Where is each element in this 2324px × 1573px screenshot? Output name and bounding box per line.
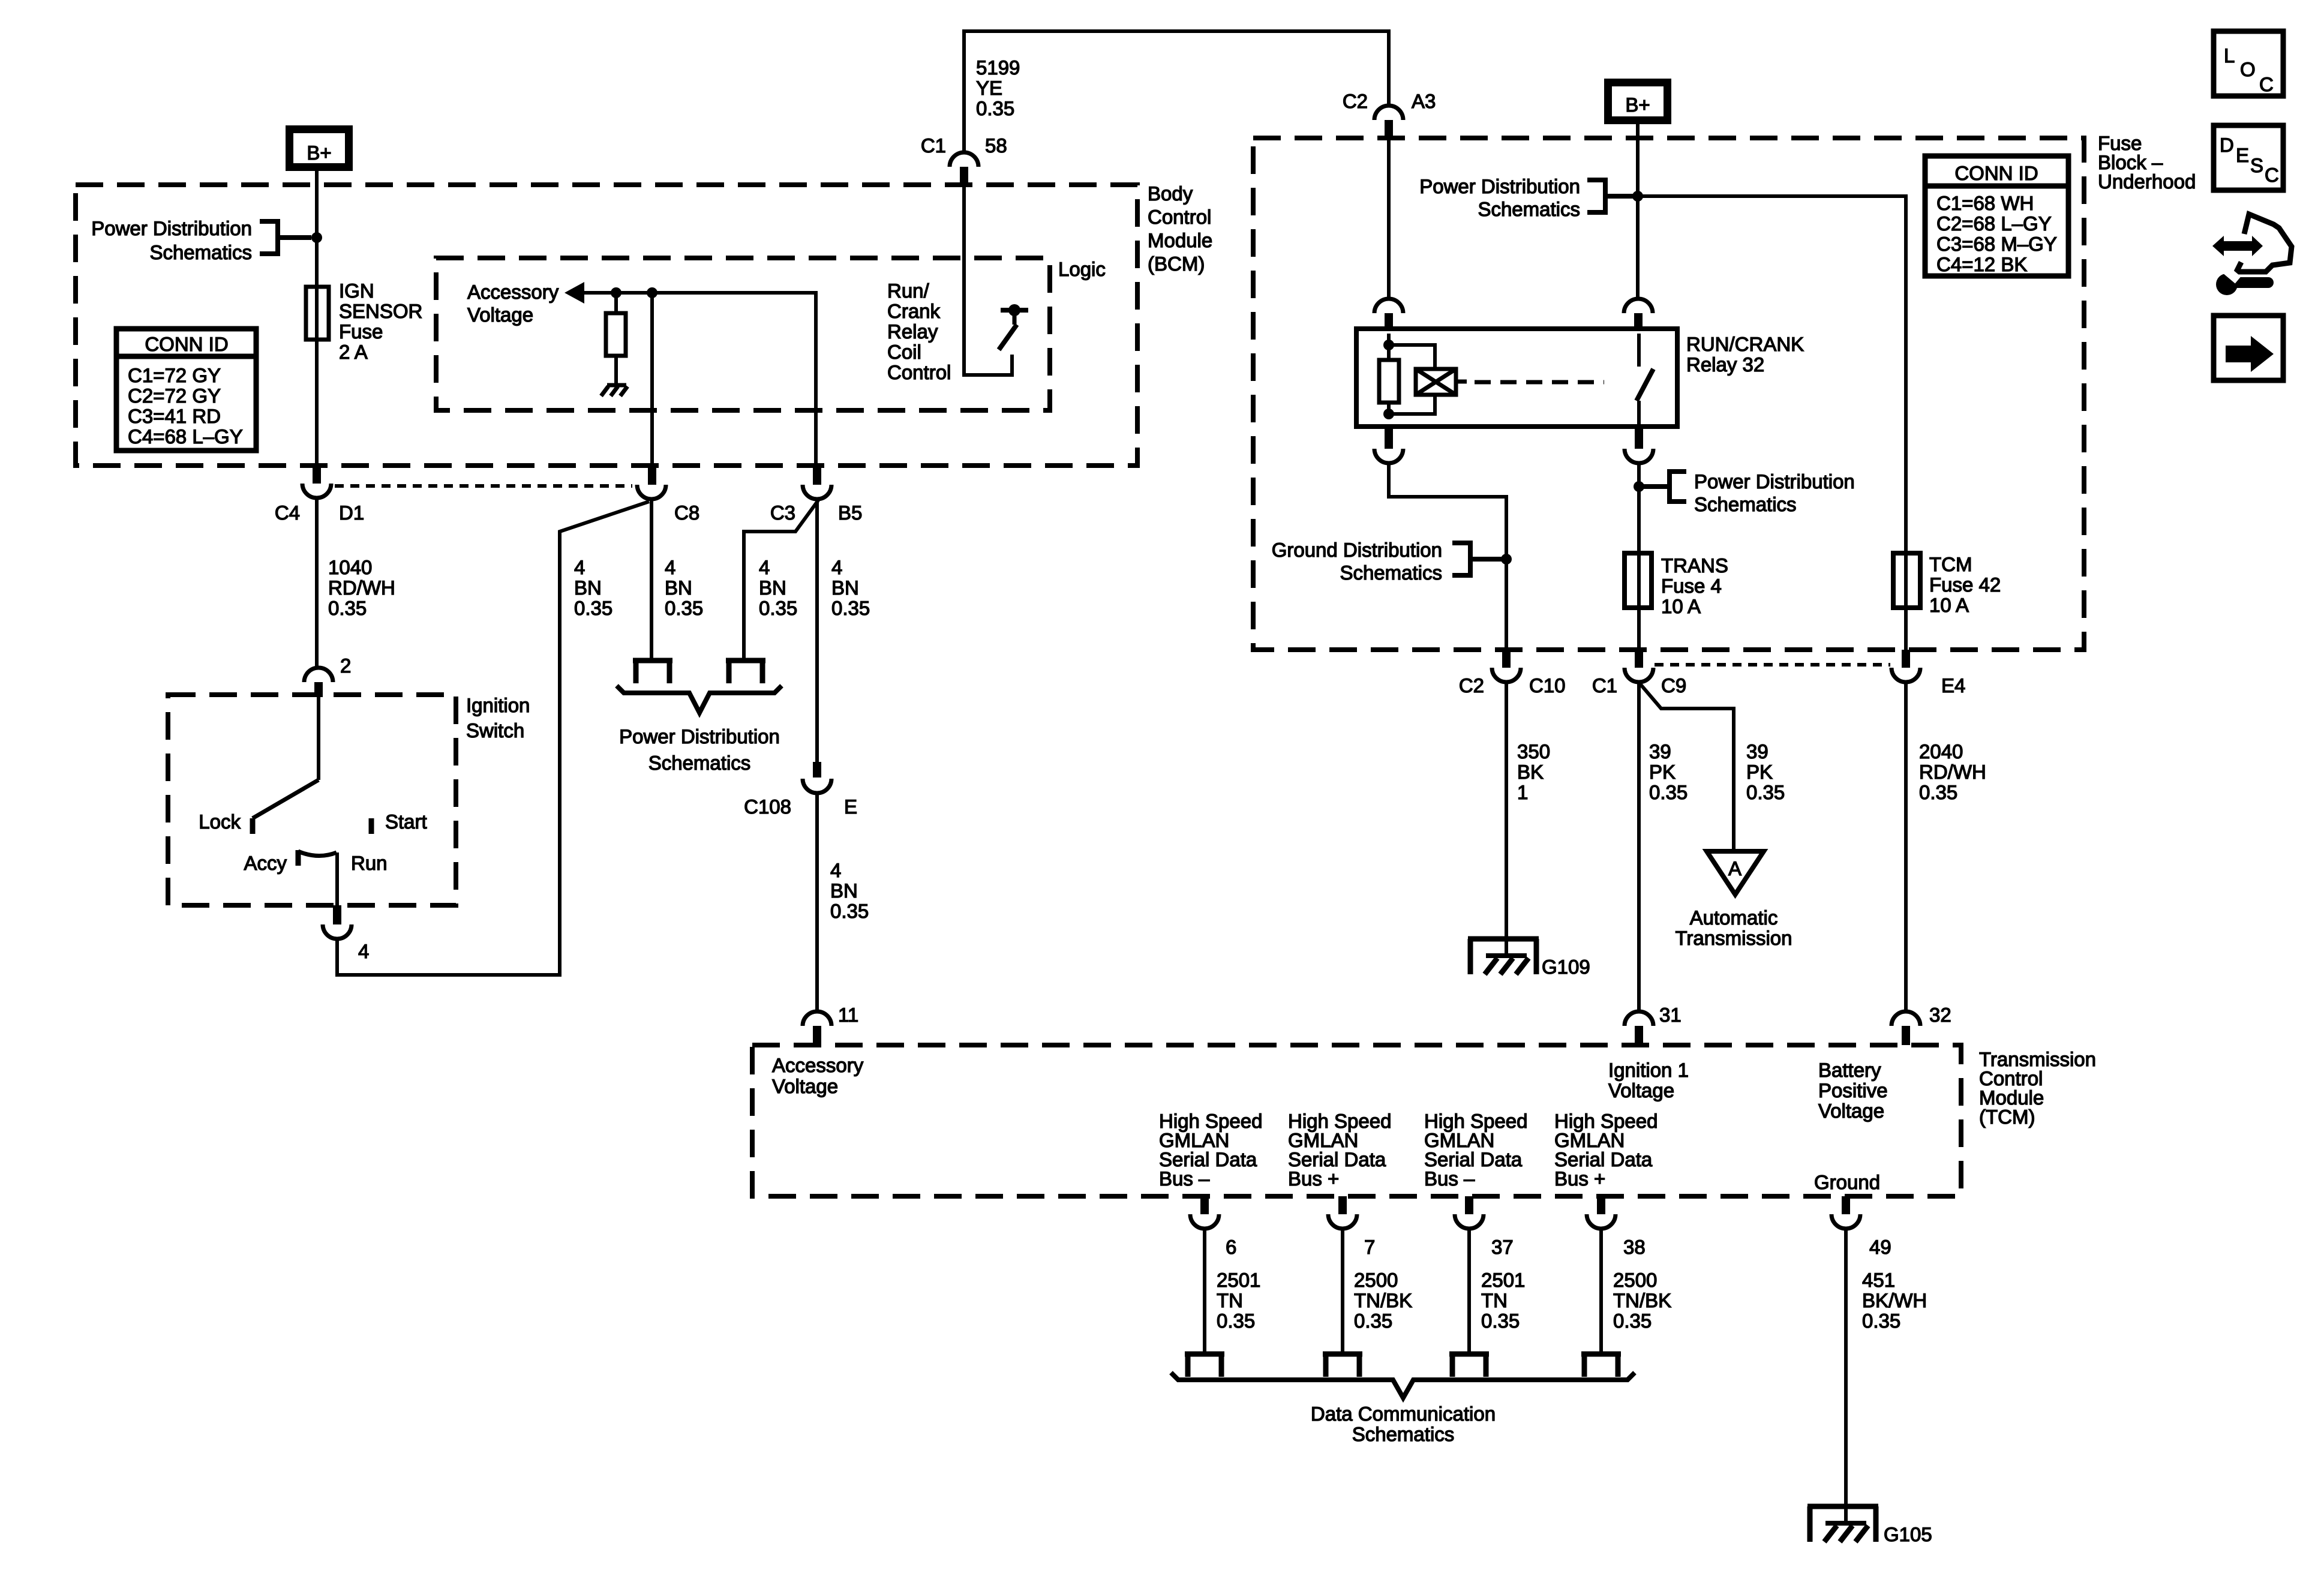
svg-text:RD/WH: RD/WH [1919,761,1986,783]
svg-text:0.35: 0.35 [1354,1310,1392,1332]
connector 4 arc [323,924,352,939]
svg-text:Ignition: Ignition [466,694,530,716]
connector C8 arc [637,485,666,499]
node: junction power distribution tap [1634,481,1644,492]
svg-text:C4: C4 [275,502,300,524]
svg-text:Fuse 42: Fuse 42 [1929,574,2001,596]
svg-text:0.35: 0.35 [1919,781,1957,803]
ground G109 [1468,939,1590,978]
wire resistor to ground [614,356,618,385]
svg-text:Power Distribution: Power Distribution [619,725,780,748]
battery feed B+ terminal (fuse block) [1608,83,1668,121]
svg-text:0.35: 0.35 [1481,1310,1520,1332]
wire 2501 TN (bus -) [1203,1229,1206,1354]
svg-text:C2: C2 [1459,674,1484,697]
svg-text:C2=68 L–GY: C2=68 L–GY [1936,212,2052,235]
svg-text:C10: C10 [1529,674,1566,697]
svg-text:C3: C3 [770,502,795,524]
svg-text:0.35: 0.35 [1613,1310,1652,1332]
svg-text:Fuse 4: Fuse 4 [1661,575,1722,597]
connector C108 / E arc [803,779,831,793]
svg-text:Module: Module [1148,229,1212,251]
svg-text:0.35: 0.35 [1217,1310,1255,1332]
svg-text:E: E [2236,144,2249,166]
wire 2500 TN/BK (bus +) [1341,1229,1344,1354]
node: logic switch pivot [1008,304,1020,316]
connector C8 pin [648,468,656,485]
svg-text:38: 38 [1623,1236,1646,1258]
wire C2/A3 to relay coil [1387,139,1391,299]
battery feed B+ terminal (left) [290,130,349,167]
svg-text:PK: PK [1649,761,1676,783]
ignition switch dashed box [168,695,456,905]
svg-text:Lock: Lock [199,810,241,833]
svg-text:C9: C9 [1661,674,1686,697]
svg-text:0.35: 0.35 [831,597,870,619]
svg-text:E4: E4 [1941,674,1965,697]
value label wire 350 BK 1 [1517,740,1550,803]
connector 31 arc [1625,1011,1653,1026]
label RUN/CRANK Relay 32 [1686,333,1804,376]
svg-text:TRANS: TRANS [1661,554,1728,577]
svg-text:Bus +: Bus + [1554,1167,1605,1190]
value label wire 39 PK 0.35 (branch) [1746,740,1785,803]
wire to bias resistor [614,293,618,313]
wire B+ to IGN SENSOR fuse [315,171,319,466]
connector 37 arc [1455,1214,1484,1229]
relay coil return pin [1385,427,1393,449]
wire 451 BK/WH to G105 [1844,1229,1848,1523]
contact Lock [250,818,256,834]
connector 2 arc [304,668,333,682]
svg-text:C8: C8 [674,502,699,524]
svg-text:2: 2 [340,655,351,677]
relay switch output [1637,401,1641,427]
svg-text:Accy: Accy [244,852,287,874]
pin labels C4 / D1 [275,502,364,524]
connector E4 arc [1891,668,1920,682]
label Transmission Control Module (TCM) [1979,1048,2096,1128]
svg-text:Accessory: Accessory [467,281,559,303]
wire TCM fuse feed [1638,196,1906,650]
connector C1 / 58 arc [950,152,978,167]
svg-text:Schematics: Schematics [1478,198,1580,220]
svg-text:C2: C2 [1343,90,1368,112]
value label wire 2501 TN 0.35 (pin 6) [1217,1269,1260,1332]
svg-text:TN/BK: TN/BK [1354,1289,1412,1311]
off-page triangle A (automatic transmission) [1707,851,1764,894]
svg-text:Voltage: Voltage [1818,1100,1884,1122]
wire 350 BK to G109 [1505,682,1508,956]
label Power Distribution Schematics (BCM) [91,217,252,263]
value label IGN SENSOR Fuse 2 A [339,280,422,363]
off-page terminal (pin 37) [1449,1354,1489,1377]
svg-text:PK: PK [1746,761,1773,783]
connector 11 arc [803,1011,831,1026]
connector 11 pin [813,1026,821,1045]
svg-text:C108: C108 [744,795,791,818]
svg-text:BN: BN [830,879,858,902]
svg-text:Fuse: Fuse [339,320,383,343]
svg-text:1: 1 [1517,781,1528,803]
svg-text:39: 39 [1746,740,1768,763]
svg-text:SENSOR: SENSOR [339,300,422,322]
svg-text:49: 49 [1869,1236,1891,1258]
value label wire 5199 YE 0.35, pins C1 / 58 [921,56,1020,157]
value label wire 39 PK 0.35 [1649,740,1688,803]
svg-text:S: S [2250,154,2263,176]
wire B+ into fuse block [1636,121,1640,299]
off-page terminal symbol (C3 wire) [726,661,765,683]
svg-text:(BCM): (BCM) [1148,253,1205,275]
relay coil feed pin [1385,313,1393,331]
value label wire 4 BN 0.35 (ignition feed) [574,556,612,619]
svg-text:Power Distribution: Power Distribution [91,217,252,239]
wiper arc Accy to Run [298,851,337,856]
svg-text:2040: 2040 [1919,740,1963,763]
connector E4 pin [1902,650,1910,668]
relay coil feed connector arc [1374,299,1403,313]
svg-text:7: 7 [1364,1236,1375,1258]
pin labels C2 C10 C1 C9 E4 [1459,674,1966,697]
svg-text:451: 451 [1862,1269,1895,1291]
svg-text:4: 4 [665,556,675,578]
label Fuse Block - Underhood [2098,132,2196,193]
svg-text:Bus –: Bus – [1424,1167,1475,1190]
value label wire 2501 TN 0.35 (pin 37) [1481,1269,1525,1332]
fuse TRANS Fuse 4 10A [1625,553,1652,608]
connector C3 / B5 arc [803,485,831,499]
ground G105 [1807,1506,1932,1545]
connector 7 pin [1338,1196,1347,1214]
LOC reference box [2214,31,2283,96]
svg-text:Run/: Run/ [887,280,930,302]
fuse block underhood dashed box [1253,138,2084,650]
svg-text:0.35: 0.35 [1649,781,1688,803]
relay switch output pin [1635,427,1643,449]
svg-text:4: 4 [759,556,770,578]
CONN ID table (fuse block) [1925,156,2068,276]
BCM logic switch crossbar [1001,308,1028,313]
svg-text:TCM: TCM [1929,553,1972,575]
connector 32 pin [1902,1026,1910,1045]
label Power Distribution Schematics (TRANS tap) [1694,470,1855,515]
svg-text:0.35: 0.35 [976,97,1014,119]
label Run/Crank Relay Coil Control [887,280,951,383]
svg-text:Relay: Relay [887,320,938,343]
svg-text:(TCM): (TCM) [1979,1106,2035,1128]
svg-text:350: 350 [1517,740,1550,763]
svg-text:D1: D1 [339,502,364,524]
svg-text:C4=68 L–GY: C4=68 L–GY [128,425,243,448]
wire 2501 TN (pin 37) [1467,1229,1471,1354]
node: junction on B+ wire [311,232,322,243]
diagnostic car icon: double arrow [2212,236,2263,256]
svg-text:Schematics: Schematics [149,241,252,263]
wire C3 branch to off-page [744,500,818,661]
node: coil bottom junction [1383,409,1394,419]
svg-text:Positive: Positive [1818,1079,1888,1101]
svg-text:BK/WH: BK/WH [1862,1289,1927,1311]
svg-text:Start: Start [385,810,427,833]
value label TCM Fuse 42 10 A [1929,553,2001,616]
connector 37 pin [1465,1196,1473,1214]
pin labels C2 / A3 [1343,90,1436,112]
svg-text:TN: TN [1481,1289,1508,1311]
svg-text:Underhood: Underhood [2098,170,2196,193]
svg-text:YE: YE [976,77,1002,99]
connector C2 / C10 arc [1492,668,1521,682]
accessory voltage wire [583,293,816,466]
node: junction B+ to TCM fuse feed [1632,191,1643,202]
svg-text:D: D [2220,134,2234,156]
node: coil top junction [1383,340,1394,350]
svg-text:31: 31 [1659,1004,1682,1026]
svg-text:B+: B+ [1625,94,1650,116]
svg-text:Automatic: Automatic [1690,906,1778,929]
svg-text:11: 11 [838,1004,858,1026]
contact labels Lock Start Accy Run [199,810,427,874]
svg-text:C: C [2265,164,2279,186]
wire 2040 RD/WH to TCM pin 32 [1904,682,1908,1010]
node: junction ground distribution [1501,554,1512,565]
svg-text:Accessory: Accessory [772,1054,864,1076]
svg-text:Battery: Battery [1818,1059,1881,1081]
svg-text:32: 32 [1929,1004,1951,1026]
svg-text:Ground: Ground [1814,1171,1880,1193]
connector 49 arc [1831,1214,1860,1229]
logic switch stub [1013,310,1017,325]
svg-text:4: 4 [574,556,585,578]
svg-text:4: 4 [831,556,842,578]
relay actuation stub [1456,380,1467,384]
svg-text:C3=41 RD: C3=41 RD [128,405,221,427]
label Ground Distribution Schematics [1272,539,1442,584]
value label wire 2500 TN/BK 0.35 (pin 38) [1613,1269,1671,1332]
wire C8 to off-page [650,499,653,661]
connector C1 / C9 pin [1635,650,1643,668]
svg-text:E: E [844,795,857,818]
svg-text:C4=12 BK: C4=12 BK [1936,253,2027,275]
in-line harness dotted line C4 to C8 [335,484,632,488]
accessory voltage arrow [565,282,584,304]
connector C4 / D1 pin [313,466,321,484]
svg-text:O: O [2240,58,2256,80]
fuse TCM Fuse 42 10A [1893,553,1920,608]
svg-text:TN: TN [1217,1289,1243,1311]
connector 6 pin [1200,1196,1209,1214]
fuse IGN SENSOR 2A [306,287,329,340]
off-page terminal (pin 7) [1323,1354,1362,1377]
svg-text:G105: G105 [1884,1523,1932,1545]
off-page terminal (pin 6) [1185,1354,1224,1377]
svg-text:BK: BK [1517,761,1544,783]
svg-text:B+: B+ [307,142,331,164]
svg-text:Bus +: Bus + [1288,1167,1339,1190]
wire B5 down [815,499,819,762]
node: junction to bias resistor [611,287,621,298]
svg-text:L: L [2224,44,2235,67]
svg-text:0.35: 0.35 [1746,781,1785,803]
wire 1040 RD/WH [315,498,319,667]
relay coil resistor [1379,360,1399,403]
svg-text:Schematics: Schematics [1340,562,1442,584]
svg-text:BN: BN [665,577,692,599]
svg-text:0.35: 0.35 [1862,1310,1900,1332]
connector C4 / D1 arc [302,484,331,498]
off-page bracket to ground distribution [1452,543,1506,575]
svg-text:Voltage: Voltage [1608,1079,1674,1101]
in-line harness dotted line C1 to E4 [1655,663,1890,667]
svg-text:2 A: 2 A [339,341,368,363]
svg-text:C1=72 GY: C1=72 GY [128,364,221,386]
wire 39 PK to TCM pin 31 [1637,682,1641,1010]
connector C2 / A3 pin [1385,120,1393,139]
connector 38 arc [1587,1214,1616,1229]
label Power Distribution Schematics (brace) [619,725,780,774]
svg-text:4: 4 [830,859,841,881]
svg-text:RD/WH: RD/WH [328,577,395,599]
svg-text:A: A [1728,857,1742,879]
label Power Distribution Schematics (fuse block top) [1419,175,1580,220]
off-page bracket (fuse block top) [1587,180,1638,212]
BCM outer dashed box [76,185,1137,466]
connector 2 pin [314,682,323,697]
svg-text:Ground Distribution: Ground Distribution [1272,539,1442,561]
svg-text:10 A: 10 A [1661,595,1701,617]
wire relay switch to TRANS fuse [1637,463,1641,650]
CONN ID table (BCM) [116,329,256,451]
wire into switch [317,697,320,780]
contact Accy [296,850,301,866]
diagnostic car icon: car outline [2236,214,2292,272]
connector 38 pin [1597,1196,1605,1214]
chassis ground (logic) [601,385,627,396]
wire 5199 YE from BCM C1 to fuse block C2 [964,31,1389,151]
label Body Control Module (BCM) [1148,182,1212,275]
svg-text:Run: Run [351,852,388,874]
connector C1 / C9 arc [1625,668,1653,682]
svg-text:0.35: 0.35 [328,597,367,619]
svg-text:BN: BN [831,577,859,599]
svg-text:Data Communication: Data Communication [1311,1403,1496,1425]
label Data Communication Schematics [1311,1403,1496,1445]
wire Run contact down [335,852,339,905]
svg-text:Bus –: Bus – [1159,1167,1210,1190]
svg-text:C2=72 GY: C2=72 GY [128,385,221,407]
svg-text:Relay 32: Relay 32 [1686,353,1764,376]
svg-text:Logic: Logic [1058,258,1106,280]
Logic dashed box [436,258,1050,410]
svg-text:CONN ID: CONN ID [145,333,228,355]
wire 4 BN to TCM pin 11 [815,793,819,1010]
value label wire 2040 RD/WH 0.35 [1919,740,1986,803]
svg-text:B5: B5 [838,502,862,524]
node: junction to C8 output [647,287,657,298]
connector 4 pin [333,905,341,924]
label Ignition Switch [466,694,530,742]
svg-text:Transmission: Transmission [1676,927,1792,949]
svg-text:RUN/CRANK: RUN/CRANK [1686,333,1804,355]
svg-text:Power Distribution: Power Distribution [1694,470,1855,493]
connector C2 / A3 arc [1374,106,1403,120]
label Automatic Transmission [1676,906,1792,949]
svg-text:0.35: 0.35 [574,597,612,619]
connector 7 arc [1328,1214,1357,1229]
svg-text:0.35: 0.35 [759,597,797,619]
svg-text:Coil: Coil [887,341,921,363]
svg-text:6: 6 [1226,1236,1236,1258]
svg-text:Ignition 1: Ignition 1 [1608,1059,1689,1081]
connector C2 / C10 pin [1502,650,1511,668]
svg-text:4: 4 [358,940,369,962]
svg-text:Schematics: Schematics [648,752,751,774]
svg-text:BN: BN [759,577,786,599]
RUN/CRANK relay box [1356,329,1677,427]
switch blade toward Lock [253,780,319,818]
svg-text:C: C [2259,73,2274,95]
wire accessory voltage to C8 [650,293,654,468]
connector 49 pin [1842,1196,1850,1214]
svg-text:C1: C1 [1592,674,1617,697]
off-page terminal (pin 38) [1581,1354,1621,1377]
value label wire 4 BN 0.35 (C3) [759,556,797,619]
relay switch stationary contact [1637,334,1641,367]
svg-text:2500: 2500 [1613,1269,1657,1291]
connector 6 arc [1190,1214,1219,1229]
off-page bracket (to TRANS fuse wire) [1639,472,1686,502]
wire 2500 TN/BK (pin 38) [1599,1229,1603,1354]
wire relay coil return to C2/C10 [1389,463,1506,650]
svg-text:G109: G109 [1542,956,1590,978]
svg-text:2501: 2501 [1481,1269,1525,1291]
svg-text:IGN: IGN [339,280,374,302]
relay switch output arc [1625,449,1653,463]
svg-text:CONN ID: CONN ID [1954,162,2038,184]
off-page bracket to Power Distribution Schematics [260,221,311,254]
net labels High Speed GMLAN Serial Data Bus [1159,1110,1658,1190]
diagnostic car icon: wrench [2216,266,2268,295]
net label Accessory Voltage [467,281,559,326]
value label wire 4 BN 0.35 (B5) [831,556,870,619]
logic switch blade [999,325,1017,350]
svg-text:37: 37 [1491,1236,1514,1258]
svg-text:Schematics: Schematics [1694,493,1797,515]
value label wire 2500 TN/BK 0.35 (pin 7) [1354,1269,1412,1332]
next-page arrow box [2214,316,2283,380]
svg-text:A3: A3 [1412,90,1436,112]
connector C1 / 58 pin [960,167,968,186]
relay switch feed connector arc [1624,299,1653,313]
wire ignition switch output loop to C8 [337,502,649,975]
value label wire 4 BN 0.35 (to TCM 11) [830,859,869,922]
svg-text:C1=68 WH: C1=68 WH [1936,192,2034,214]
relay coil branch wires [1389,334,1435,414]
relay switch feed pin [1634,313,1643,331]
svg-text:58: 58 [985,134,1007,157]
svg-text:C3=68 M–GY: C3=68 M–GY [1936,233,2057,255]
svg-text:5199: 5199 [976,56,1020,79]
relay coil return arc [1374,449,1403,463]
value label TRANS Fuse 4 10 A [1661,554,1728,617]
brace Data Communication Schematics [1171,1373,1635,1398]
svg-text:Control: Control [1148,206,1211,228]
svg-text:2501: 2501 [1217,1269,1260,1291]
relay switch blade [1637,369,1653,401]
svg-text:Control: Control [887,361,951,383]
svg-text:0.35: 0.35 [830,900,869,922]
svg-text:Body: Body [1148,182,1193,205]
